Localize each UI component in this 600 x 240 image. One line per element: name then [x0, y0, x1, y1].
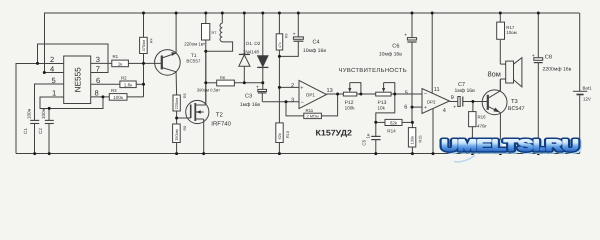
- svg-text:C1: C1: [23, 128, 28, 134]
- svg-text:1,6к: 1,6к: [124, 83, 133, 88]
- transistor T2 IRF740: [186, 51, 209, 153]
- resistor R9: [276, 13, 288, 56]
- svg-text:47к: 47к: [278, 42, 282, 48]
- capacitor C8: [534, 13, 543, 154]
- diode D2: [257, 13, 268, 83]
- resistor R6: [197, 75, 263, 93]
- svg-text:R7: R7: [212, 31, 217, 35]
- wire T2 drain column: [205, 51, 207, 105]
- svg-text:4: 4: [443, 108, 446, 114]
- svg-text:220ом: 220ом: [174, 98, 179, 110]
- svg-text:C8: C8: [545, 54, 552, 60]
- svg-text:2: 2: [50, 55, 54, 64]
- svg-text:DP2: DP2: [427, 99, 436, 104]
- svg-text:470к: 470к: [477, 124, 487, 129]
- op-amp DP2: [422, 13, 450, 154]
- capacitor C6: [407, 13, 416, 122]
- svg-text:7: 7: [96, 64, 100, 73]
- potentiometer P13: [376, 83, 422, 111]
- watermark swoosh: [454, 156, 475, 162]
- svg-text:4: 4: [50, 64, 54, 73]
- svg-text:100н: 100н: [41, 108, 46, 119]
- svg-text:100к: 100к: [113, 95, 124, 100]
- svg-text:R2: R2: [121, 75, 127, 80]
- resistor R1: [91, 54, 144, 67]
- svg-text:390ом 0,5вт: 390ом 0,5вт: [197, 88, 220, 93]
- svg-text:10k: 10k: [378, 106, 386, 111]
- resistor R4: [140, 13, 154, 63]
- svg-text:R10: R10: [286, 131, 290, 138]
- wire pin 5 to C1: [35, 84, 64, 120]
- IC U1 NE555: [64, 56, 91, 104]
- svg-text:3: 3: [291, 97, 294, 103]
- svg-text:+: +: [256, 85, 259, 91]
- resistor R2: [91, 75, 144, 87]
- watermark umeltsi.ru: [442, 138, 581, 156]
- svg-text:+: +: [424, 105, 427, 111]
- svg-text:R8: R8: [183, 126, 187, 131]
- resistor R16: [469, 102, 488, 154]
- svg-text:ЧУВСТВИТЕЛЬНОСТЬ: ЧУВСТВИТЕЛЬНОСТЬ: [339, 67, 407, 74]
- svg-text:1мф 16в: 1мф 16в: [240, 102, 261, 108]
- svg-text:62k: 62k: [390, 120, 398, 125]
- wire P13 wiper to R14 node: [376, 94, 395, 122]
- transistor T1 BC557: [155, 13, 181, 95]
- svg-text:2 МОм: 2 МОм: [307, 113, 320, 118]
- svg-text:6: 6: [404, 104, 407, 110]
- svg-text:220ом 1вт: 220ом 1вт: [184, 41, 205, 46]
- svg-text:1: 1: [52, 89, 56, 98]
- svg-text:R1: R1: [113, 54, 119, 59]
- svg-text:Bat1: Bat1: [583, 86, 593, 91]
- svg-text:R15: R15: [418, 136, 422, 143]
- wire DP2 output to C7: [450, 101, 459, 103]
- svg-text:BC557: BC557: [186, 58, 200, 63]
- inductor L search coil: [206, 13, 233, 51]
- svg-text:R14: R14: [387, 128, 396, 133]
- svg-text:–: –: [301, 100, 304, 106]
- resistor R15: [408, 122, 422, 153]
- wire left outer loop to pin 2: [16, 63, 64, 153]
- wire pin 7 to pin 2 loop: [38, 44, 109, 73]
- svg-text:+: +: [404, 33, 407, 39]
- svg-text:9: 9: [451, 95, 454, 101]
- op-amp OP1: [299, 80, 327, 108]
- svg-text:10мф 16в: 10мф 16в: [379, 51, 402, 57]
- svg-text:100k: 100k: [345, 106, 356, 111]
- resistor R5: [173, 93, 187, 118]
- resistor R17: [497, 13, 517, 64]
- svg-text:10мф 16в: 10мф 16в: [303, 48, 326, 54]
- svg-text:3: 3: [96, 55, 100, 64]
- svg-text:R9: R9: [285, 34, 289, 38]
- svg-text:C5: C5: [362, 139, 367, 145]
- wire T1 base: [144, 62, 162, 64]
- svg-text:10ом: 10ом: [506, 30, 516, 35]
- wire C2 bottom lead: [48, 124, 50, 154]
- svg-text:R6: R6: [220, 75, 226, 80]
- svg-text:13: 13: [327, 88, 333, 94]
- svg-text:150ом: 150ом: [174, 129, 179, 141]
- svg-text:470ом: 470ом: [141, 40, 146, 52]
- svg-text:C3: C3: [245, 94, 252, 100]
- svg-text:R3: R3: [111, 88, 117, 93]
- svg-text:8ом: 8ом: [488, 70, 501, 79]
- svg-text:D1. D2: D1. D2: [246, 41, 261, 46]
- svg-text:R4: R4: [150, 38, 154, 43]
- svg-text:NE555: NE555: [74, 67, 83, 92]
- wire C1 bottom lead: [34, 124, 36, 154]
- svg-text:11: 11: [434, 87, 440, 93]
- wire bottom ground rail: [16, 153, 579, 155]
- svg-text:BC547: BC547: [508, 106, 525, 112]
- wire node column R1/R2/R3: [143, 63, 145, 97]
- svg-text:12V: 12V: [583, 96, 591, 101]
- wire C2 column: [48, 108, 50, 120]
- wire OP1 noninverting input: [279, 86, 299, 88]
- wire DP2 pin 6: [412, 106, 422, 108]
- capacitor C1: [30, 120, 39, 123]
- resistor R11: [286, 94, 338, 119]
- resistor R10: [276, 123, 290, 154]
- svg-text:R16: R16: [478, 115, 487, 120]
- svg-text:2: 2: [291, 83, 294, 89]
- svg-text:IRF740: IRF740: [211, 121, 231, 128]
- svg-text:+: +: [300, 85, 303, 91]
- svg-text:5: 5: [52, 76, 56, 85]
- svg-text:R11: R11: [306, 108, 314, 113]
- svg-text:+: +: [453, 105, 456, 111]
- capacitor C2: [45, 120, 54, 123]
- transistor T3 BC547: [482, 79, 507, 154]
- svg-text:2200мф 16в: 2200мф 16в: [543, 66, 572, 72]
- svg-text:1N4148: 1N4148: [243, 49, 260, 54]
- svg-text:UMELTSI.RU: UMELTSI.RU: [442, 138, 579, 155]
- svg-text:R5: R5: [183, 93, 187, 98]
- resistor R14: [376, 119, 413, 133]
- svg-text:OP1: OP1: [306, 93, 316, 98]
- resistor R7: [184, 13, 216, 51]
- wire OP1 output: [327, 93, 344, 95]
- svg-text:8: 8: [95, 89, 99, 98]
- svg-text:К157УД2: К157УД2: [316, 128, 353, 137]
- capacitor C4: [279, 13, 303, 56]
- capacitor C7: [458, 97, 488, 107]
- resistor R8: [173, 118, 188, 154]
- svg-text:C2: C2: [38, 128, 43, 134]
- svg-text:1мф 16в: 1мф 16в: [455, 88, 476, 94]
- svg-text:1н: 1н: [366, 133, 371, 138]
- wire pin 4 column from top rail: [44, 13, 63, 73]
- svg-text:C6: C6: [392, 43, 399, 49]
- svg-text:+: +: [532, 53, 535, 59]
- svg-text:5: 5: [405, 90, 408, 96]
- svg-text:T3: T3: [511, 98, 518, 105]
- svg-text:C4: C4: [313, 39, 320, 45]
- speaker 8 ohm: [500, 58, 522, 91]
- svg-text:–: –: [424, 91, 427, 97]
- svg-text:6: 6: [96, 76, 100, 85]
- svg-text:62к: 62к: [277, 133, 282, 139]
- svg-text:130к: 130к: [410, 136, 415, 145]
- battery Bat1 12V: [573, 13, 587, 154]
- wire C3 to OP1 inverting input: [262, 101, 299, 103]
- wire T2 gate: [177, 117, 191, 119]
- wire top supply rail: [44, 12, 580, 14]
- potentiometer P12: [343, 83, 375, 111]
- label D1 D2 1N4148: [243, 41, 261, 54]
- capacitor C5: [371, 122, 380, 153]
- svg-text:100н: 100н: [27, 108, 32, 119]
- resistor R3: [91, 88, 144, 100]
- svg-text:+: +: [293, 31, 296, 37]
- wire pin 1 to pin 8 loop: [40, 97, 103, 109]
- svg-text:T2: T2: [216, 111, 224, 118]
- capacitor C3: [258, 83, 267, 102]
- wire R9/C4 node to OP1 + input and R10: [278, 56, 280, 123]
- diode D1: [239, 13, 250, 83]
